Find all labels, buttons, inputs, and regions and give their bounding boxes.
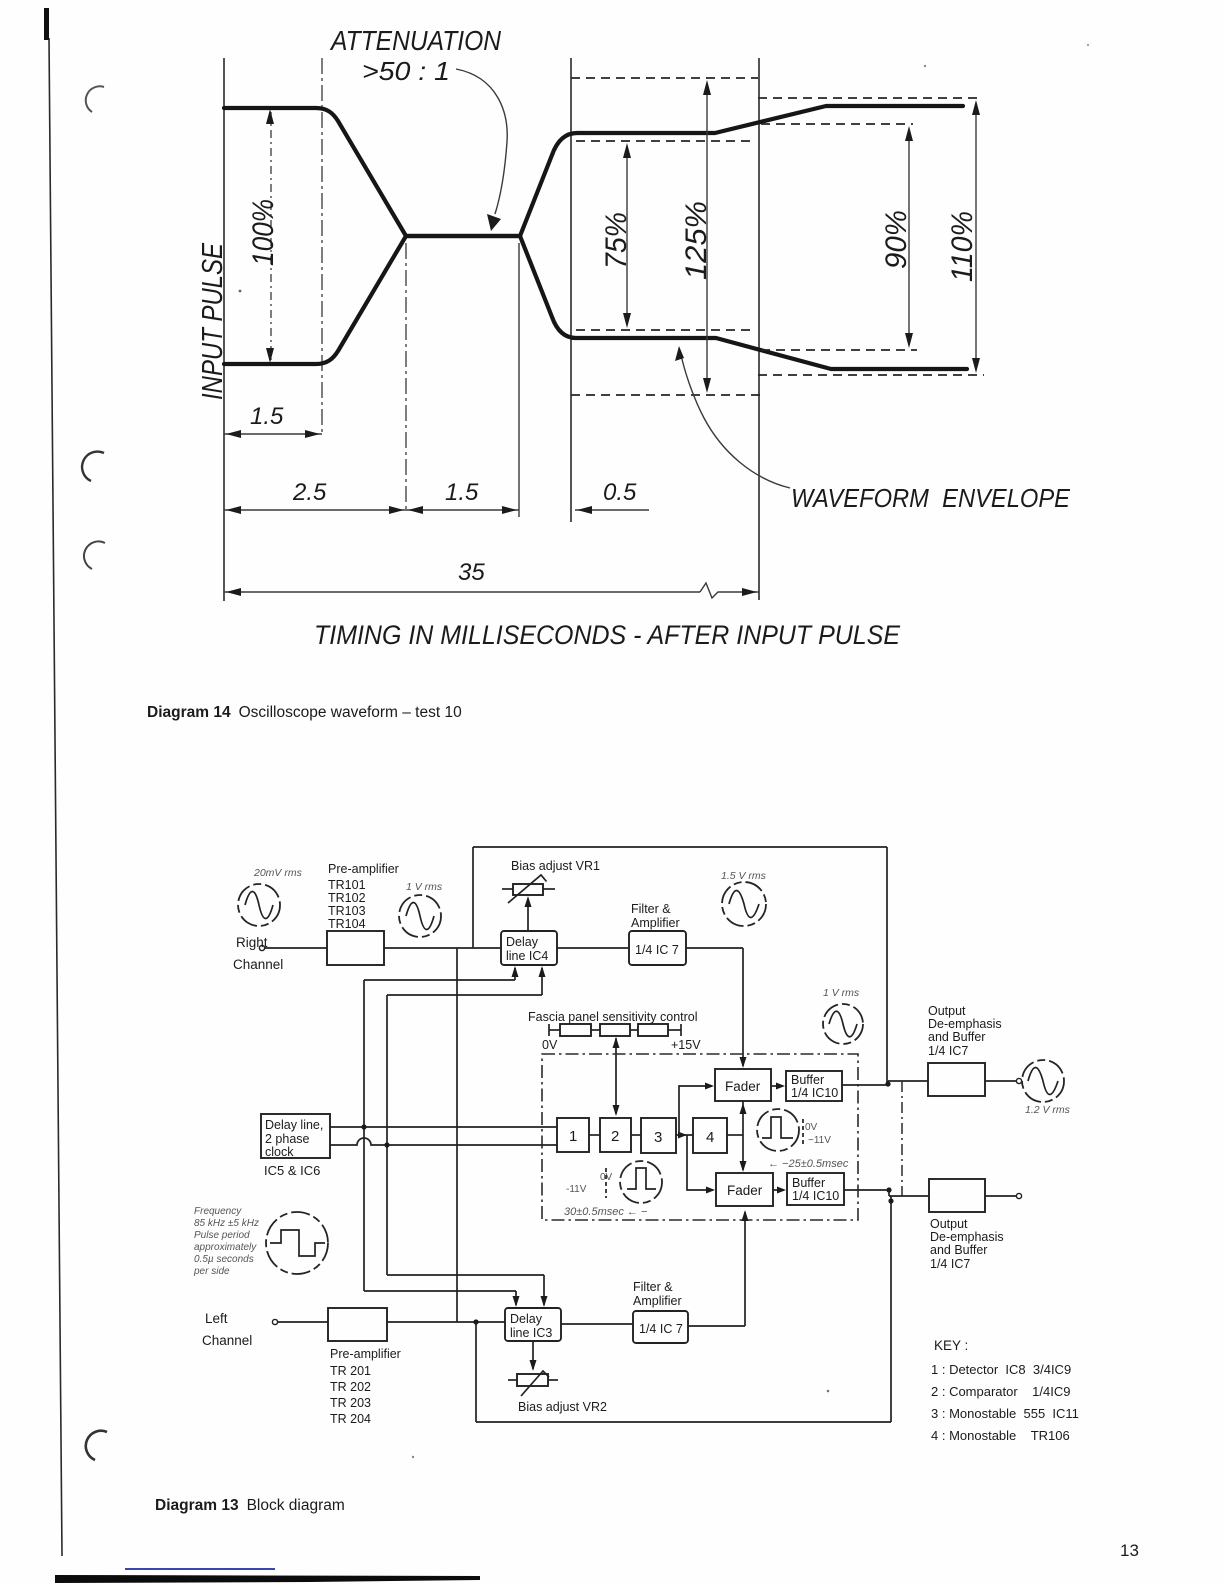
wire buffer2 output xyxy=(844,1189,889,1191)
wire dashed limit 125 percent top xyxy=(571,77,758,79)
svg-text:Output: Output xyxy=(928,1004,966,1018)
wire clock phase A riser xyxy=(363,980,365,1291)
svg-text:20mV rms: 20mV rms xyxy=(253,867,303,879)
node buffer 1 1/4 IC10 xyxy=(786,1071,842,1101)
node monostable box 4 xyxy=(693,1118,727,1153)
svg-text:Fader: Fader xyxy=(727,1183,763,1198)
node dimension 1.5 first xyxy=(224,433,322,435)
wire clock phase A to detector xyxy=(330,1126,557,1128)
node right channel input terminal xyxy=(259,945,264,950)
svg-text:1 V rms: 1 V rms xyxy=(823,987,860,999)
wire filter2 output up to fader2 xyxy=(688,1325,745,1327)
wire IC3 to VR2 arrow down xyxy=(532,1341,534,1369)
wire waveform envelope leader arrow xyxy=(681,355,790,488)
node dimension arrow 75 percent xyxy=(626,146,628,325)
svg-text:Amplifier: Amplifier xyxy=(633,1294,682,1308)
node junction dot buffer1 out xyxy=(885,1081,890,1086)
svg-text:125%: 125% xyxy=(680,201,713,280)
svg-text:+15V: +15V xyxy=(671,1038,701,1052)
svg-text:110%: 110% xyxy=(946,211,979,282)
svg-text:Output: Output xyxy=(930,1217,968,1231)
svg-text:Frequency: Frequency xyxy=(194,1206,242,1217)
svg-text:Diagram 14Oscilloscope wavefor: Diagram 14Oscilloscope waveform – test 1… xyxy=(147,704,462,721)
svg-text:2 : Comparator 1/4IC9: 2 : Comparator 1/4IC9 xyxy=(931,1384,1070,1399)
svg-text:per side: per side xyxy=(193,1266,230,1277)
svg-text:Pre-amplifier: Pre-amplifier xyxy=(328,862,399,876)
node dimension 35 xyxy=(224,591,700,593)
node delay line 2 phase clock IC5 IC6 xyxy=(261,1114,330,1158)
svg-text:and Buffer: and Buffer xyxy=(928,1030,985,1044)
svg-text:1/4 IC7: 1/4 IC7 xyxy=(930,1257,970,1271)
wire dashed limit 75 percent bottom xyxy=(576,329,755,331)
wire clock phase B riser xyxy=(386,995,388,1275)
node dimension 1.5 second xyxy=(406,509,519,511)
wire dashed limit 110 percent bottom xyxy=(758,374,984,376)
amplifier pre-amplifier TR101-TR104 xyxy=(327,931,384,965)
node left channel input terminal xyxy=(272,1319,277,1324)
node fader 2 xyxy=(716,1173,773,1206)
amplifier pre-amplifier TR201-TR204 xyxy=(328,1308,387,1341)
node fader 1 xyxy=(715,1069,771,1101)
svg-text:1 : Detector IC8 3/4IC9: 1 : Detector IC8 3/4IC9 xyxy=(931,1362,1071,1377)
svg-text:2: 2 xyxy=(611,1128,619,1145)
node boundary chain line at 4ms left of waist end xyxy=(405,243,407,510)
wire box1 to box2 xyxy=(589,1134,600,1136)
svg-text:4: 4 xyxy=(706,1129,714,1146)
wire clock phase B to IC4 xyxy=(387,994,542,996)
node dimension 0.5 xyxy=(575,509,649,511)
wire box4 output to fader drop line xyxy=(727,1134,743,1136)
svg-text:De-emphasis: De-emphasis xyxy=(930,1230,1004,1244)
svg-text:>50 : 1: >50 : 1 xyxy=(362,56,450,86)
wire IC3 to filter2 xyxy=(561,1323,633,1325)
wire box3 to box4 with arrow xyxy=(676,1134,693,1136)
svg-text:0V: 0V xyxy=(805,1122,818,1133)
node dimension 2.5 xyxy=(224,509,406,511)
svg-text:TR103: TR103 xyxy=(328,904,366,918)
wire buffer1 output xyxy=(842,1084,888,1086)
svg-text:Right: Right xyxy=(236,935,268,950)
node dash-dot enclosure detector and fader section xyxy=(542,1054,858,1220)
wire right channel input xyxy=(265,947,327,949)
wire delay IC4 to VR1 with up arrow xyxy=(527,899,529,931)
svg-text:Pre-amplifier: Pre-amplifier xyxy=(330,1347,401,1361)
wire attenuation leader arrow xyxy=(456,69,507,214)
wire dashed limit 125 percent bottom xyxy=(571,394,760,396)
svg-text:−11V: −11V xyxy=(808,1135,831,1146)
resistor fascia pot section 3 xyxy=(638,1024,668,1036)
svg-text:Left: Left xyxy=(205,1311,228,1326)
wire clock phase B to IC3 xyxy=(387,1274,544,1276)
svg-text:1/4 IC10: 1/4 IC10 xyxy=(792,1189,839,1203)
svg-text:Channel: Channel xyxy=(233,957,283,972)
node comparator box 2 xyxy=(600,1118,631,1152)
svg-text:TR104: TR104 xyxy=(328,917,366,931)
wire output2 to terminal xyxy=(985,1195,1017,1197)
wire direct cross line down to left channel xyxy=(456,948,458,1322)
svg-text:De-emphasis: De-emphasis xyxy=(928,1017,1002,1031)
wire right outer loop top xyxy=(473,846,887,848)
node pulse source left 30msec xyxy=(620,1161,662,1203)
svg-text:Channel: Channel xyxy=(202,1333,252,1348)
svg-text:TR 201: TR 201 xyxy=(330,1364,371,1378)
svg-text:Buffer: Buffer xyxy=(791,1073,824,1087)
svg-text:Delay line,: Delay line, xyxy=(265,1118,323,1132)
node junction dot left loop top xyxy=(888,1198,893,1203)
wire output1 to terminal xyxy=(985,1080,1017,1082)
svg-text:75%: 75% xyxy=(600,212,633,269)
svg-text:1: 1 xyxy=(569,1128,577,1145)
wire dashed limit 75 percent top xyxy=(576,140,755,142)
wire fader1 to buffer1 xyxy=(771,1085,783,1087)
svg-text:4 : Monostable TR106: 4 : Monostable TR106 xyxy=(931,1428,1070,1443)
node boundary line at right recovery end xyxy=(758,58,760,600)
svg-text:Fader: Fader xyxy=(725,1079,761,1094)
node hole punch arc top xyxy=(86,86,104,112)
node paper speckle marks xyxy=(239,290,242,293)
svg-text:line IC3: line IC3 xyxy=(510,1326,552,1340)
wire to output box 1 xyxy=(888,1080,928,1082)
node hole punch arc bottom xyxy=(86,1431,107,1460)
svg-text:1.5 V rms: 1.5 V rms xyxy=(721,870,767,882)
svg-text:← −25±0.5msec: ← −25±0.5msec xyxy=(768,1158,849,1170)
wire fader1 bottom to fader2 top xyxy=(742,1101,744,1170)
svg-text:Pulse period: Pulse period xyxy=(194,1230,250,1241)
svg-text:0.5µ seconds: 0.5µ seconds xyxy=(194,1254,254,1265)
wire dashed link between outputs xyxy=(901,1081,903,1196)
delay line IC4 xyxy=(501,931,557,965)
svg-text:KEY :: KEY : xyxy=(934,1338,968,1353)
wire box2 to box3 xyxy=(631,1134,641,1136)
svg-text:approximately: approximately xyxy=(194,1242,257,1253)
resistor fascia pot section 1 xyxy=(560,1024,591,1036)
svg-text:1.2 V rms: 1.2 V rms xyxy=(1025,1104,1071,1116)
wire fader2 to buffer2 xyxy=(773,1189,784,1191)
wire pot wiper to comparator box 2 xyxy=(615,1038,617,1114)
svg-text:1/4 IC10: 1/4 IC10 xyxy=(791,1086,838,1100)
node bottom scan bar xyxy=(55,1575,480,1583)
wire waveform envelope bottom edge xyxy=(224,236,967,369)
node dimension arrow 125 percent xyxy=(706,83,708,390)
svg-text:13: 13 xyxy=(1120,1541,1139,1560)
node hole punch arc mid2 xyxy=(84,541,105,569)
svg-text:TIMING IN MILLISECONDS - AFTER: TIMING IN MILLISECONDS - AFTER INPUT PUL… xyxy=(314,620,901,650)
wire waveform envelope top edge xyxy=(224,106,963,236)
svg-text:1 V rms: 1 V rms xyxy=(406,881,443,893)
svg-text:TR 204: TR 204 xyxy=(330,1412,371,1426)
wire to output box 2 xyxy=(889,1195,929,1197)
svg-text:1/4 IC 7: 1/4 IC 7 xyxy=(639,1322,683,1336)
node dimension arrow 90 percent xyxy=(908,129,910,345)
wire clock phase B to detector with hop xyxy=(330,1138,557,1145)
wire junction riser down to fader2 xyxy=(687,1135,713,1190)
svg-text:30±0.5msec ← −: 30±0.5msec ← − xyxy=(564,1206,648,1218)
svg-text:-11V: -11V xyxy=(566,1184,587,1195)
svg-text:Amplifier: Amplifier xyxy=(631,916,680,930)
wire left outer loop riser to output2 xyxy=(890,1196,892,1422)
svg-text:85 kHz ±5 kHz: 85 kHz ±5 kHz xyxy=(194,1218,259,1229)
svg-text:Delay: Delay xyxy=(506,935,539,949)
wire dashed limit 90 percent bottom xyxy=(761,349,917,351)
node buffer 2 1/4 IC10 xyxy=(787,1173,844,1205)
node left axis line xyxy=(223,58,225,601)
wire preamp to delay line IC4 xyxy=(384,947,501,949)
wire clock phase A to IC3 xyxy=(364,1290,516,1292)
node dimension arrow 110 percent xyxy=(975,103,977,370)
svg-text:clock: clock xyxy=(265,1145,294,1159)
svg-text:Filter &: Filter & xyxy=(631,902,671,916)
wire left channel input xyxy=(278,1321,328,1323)
svg-text:3 : Monostable 555 IC11: 3 : Monostable 555 IC11 xyxy=(931,1406,1079,1421)
wire right outer loop riser xyxy=(472,847,474,948)
svg-text:0V: 0V xyxy=(542,1038,558,1052)
node hole punch arc mid1 xyxy=(82,452,104,481)
node boundary line at end of waist xyxy=(518,243,520,517)
svg-text:1.5: 1.5 xyxy=(250,403,284,430)
svg-text:Diagram 13Block diagram: Diagram 13Block diagram xyxy=(155,1497,345,1514)
node junction dot buffer2 out xyxy=(886,1187,891,1192)
wire clock phase A to IC4 xyxy=(364,979,515,981)
svg-text:TR101: TR101 xyxy=(328,878,366,892)
svg-text:IC5 & IC6: IC5 & IC6 xyxy=(264,1163,320,1178)
node junction dot left loop tap xyxy=(473,1319,478,1324)
node detector box 1 xyxy=(557,1118,589,1152)
svg-text:and Buffer: and Buffer xyxy=(930,1243,987,1257)
resistor VR2 bias adjust xyxy=(508,1379,517,1381)
svg-text:Bias adjust VR2: Bias adjust VR2 xyxy=(518,1400,607,1414)
node junction dot clock phase A xyxy=(361,1124,366,1129)
svg-text:WAVEFORM ENVELOPE: WAVEFORM ENVELOPE xyxy=(791,483,1071,513)
wire dashed limit 90 percent top xyxy=(761,123,913,125)
svg-text:3: 3 xyxy=(654,1129,662,1146)
wire left outer loop drop xyxy=(475,1322,477,1422)
svg-text:TR 203: TR 203 xyxy=(330,1396,371,1410)
svg-text:1/4 IC7: 1/4 IC7 xyxy=(928,1044,968,1058)
svg-text:ATTENUATION: ATTENUATION xyxy=(329,25,501,56)
svg-text:35: 35 xyxy=(458,559,485,586)
node dimension arrow 100 percent xyxy=(270,112,272,360)
node blue mark xyxy=(125,1568,275,1570)
svg-text:0.5: 0.5 xyxy=(603,479,637,506)
svg-text:1/4 IC 7: 1/4 IC 7 xyxy=(635,943,679,957)
wire right outer loop down to output xyxy=(886,847,888,1083)
wire left outer loop bottom xyxy=(476,1421,891,1423)
svg-text:Bias adjust VR1: Bias adjust VR1 xyxy=(511,859,600,873)
svg-text:Delay: Delay xyxy=(510,1312,543,1326)
wire dashed limit 110 percent top xyxy=(758,97,979,99)
node sine source output 1.2V rms xyxy=(1022,1060,1064,1102)
node monostable box 3 xyxy=(641,1118,676,1153)
svg-text:TR102: TR102 xyxy=(328,891,366,905)
node junction dot clock phase B xyxy=(384,1142,389,1147)
svg-text:INPUT PULSE: INPUT PULSE xyxy=(197,242,229,400)
wire junction riser up to fader1 xyxy=(679,1086,712,1135)
svg-text:100%: 100% xyxy=(247,199,280,266)
svg-text:line IC4: line IC4 xyxy=(506,949,548,963)
node output de-emphasis buffer 2 xyxy=(929,1179,985,1212)
resistor fascia pot section 2 xyxy=(600,1024,630,1036)
node page edge line xyxy=(49,38,62,1556)
svg-text:2.5: 2.5 xyxy=(292,479,327,506)
svg-text:TR 202: TR 202 xyxy=(330,1380,371,1394)
wire preamp2 to delay IC3 xyxy=(387,1321,505,1323)
svg-text:Fascia panel sensitivity contr: Fascia panel sensitivity control xyxy=(528,1010,698,1024)
svg-text:2 phase: 2 phase xyxy=(265,1132,310,1146)
svg-text:90%: 90% xyxy=(880,210,913,269)
wire filter output to fader drop xyxy=(686,947,743,949)
svg-text:0V: 0V xyxy=(600,1172,613,1183)
svg-text:1.5: 1.5 xyxy=(445,479,479,506)
node boundary line at 0.5 recovery start xyxy=(570,58,572,522)
delay line IC3 xyxy=(505,1308,561,1341)
node boundary chain line at 1.5ms xyxy=(321,58,323,434)
node pulse source right 25msec xyxy=(757,1109,799,1151)
svg-text:Buffer: Buffer xyxy=(792,1176,825,1190)
svg-text:Filter &: Filter & xyxy=(633,1280,673,1294)
wire delay IC4 to filter xyxy=(557,947,629,949)
